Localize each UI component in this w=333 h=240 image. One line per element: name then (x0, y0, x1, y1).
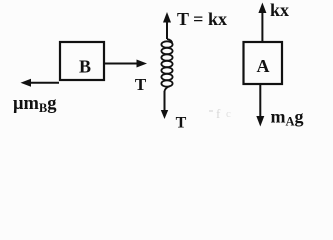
svg-text:B: B (79, 57, 91, 77)
svg-text:f: f (216, 106, 221, 121)
spring lower lead + arrow down (161, 91, 168, 119)
block A (244, 42, 283, 84)
spring upper lead + arrow up, T = kx (163, 12, 171, 39)
spring coil (161, 39, 172, 92)
svg-text:c: c (226, 108, 231, 120)
block B (60, 42, 104, 80)
friction arrow (left) (21, 79, 60, 87)
svg-text:T: T (176, 115, 187, 132)
svg-text:μmBg: μmBg (13, 94, 57, 115)
faint scan smudge (209, 106, 231, 121)
svg-text:kx: kx (270, 0, 289, 20)
svg-text:A: A (257, 56, 270, 76)
weight arrow m_A g (down from A) (256, 85, 264, 127)
tension arrow T (right) (105, 60, 147, 68)
svg-text:T = kx: T = kx (177, 9, 227, 29)
spring force arrow kx (up from A) (258, 3, 266, 42)
svg-text:T: T (135, 75, 147, 94)
